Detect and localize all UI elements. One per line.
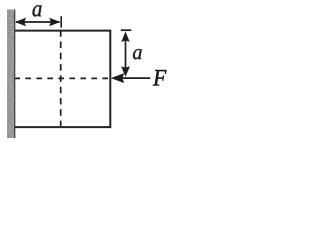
- label a (top): [33, 5, 42, 16]
- vertical dashed centerline: [60, 31, 62, 126]
- top dimension line a: [15, 16, 61, 27]
- down arrowhead: [121, 66, 130, 77]
- shaft: [125, 38, 127, 70]
- label a (right): [133, 49, 142, 59]
- horizontal dashed centerline: [15, 77, 109, 79]
- right vertical dimension a: [121, 30, 132, 77]
- force F arrow: [111, 73, 150, 83]
- square plate outline: [15, 31, 110, 128]
- right arrowhead: [49, 18, 60, 26]
- left arrowhead: [15, 18, 26, 26]
- label F: [153, 70, 166, 86]
- wall (fixed support): [7, 10, 15, 139]
- top tick bar: [121, 29, 132, 31]
- extension tick: [60, 16, 62, 27]
- up arrowhead: [121, 31, 129, 42]
